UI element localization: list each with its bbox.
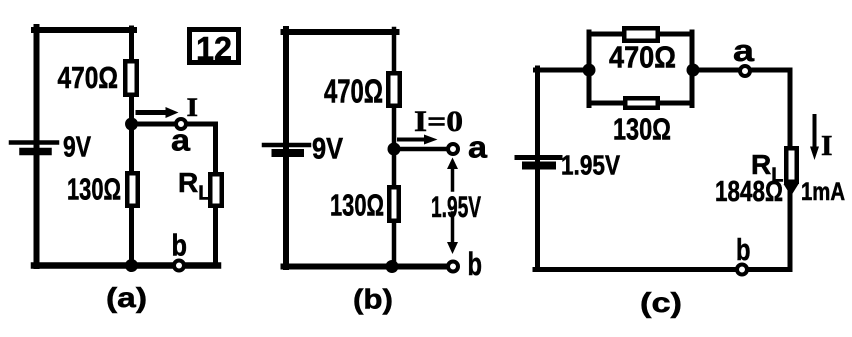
svg-text:b: b — [736, 232, 751, 267]
battery B2 9V (b) — [264, 145, 309, 153]
svg-text:a: a — [468, 130, 488, 165]
svg-text:I: I — [187, 93, 199, 122]
svg-text:1848Ω: 1848Ω — [715, 176, 783, 208]
junction: (a) bottom — [125, 259, 138, 272]
svg-text:1mA: 1mA — [801, 178, 845, 206]
svg-text:RL: RL — [178, 167, 210, 205]
resistor 470 ohm (b) — [388, 73, 400, 106]
resistor 130 ohm (b) — [389, 187, 399, 221]
wire: circuit (a) top horizontal — [34, 27, 134, 33]
svg-text:1.95V: 1.95V — [431, 191, 481, 224]
current arrow I (a) — [138, 107, 179, 118]
node a terminal (b) — [448, 144, 458, 154]
svg-text:a: a — [733, 33, 755, 68]
wire: circuit (c) feed horizontal — [536, 68, 590, 73]
junction: (a) divider tap — [125, 118, 138, 131]
wire: circuit (c) right vertical RL branch — [788, 70, 793, 270]
svg-text:(a): (a) — [106, 282, 147, 313]
svg-text:1.95V: 1.95V — [561, 150, 620, 181]
voltage arrow up toward node a (b) — [447, 158, 458, 191]
voltage arrow down toward node b (b) — [447, 213, 458, 254]
svg-text:b: b — [172, 228, 188, 263]
svg-text:a: a — [171, 123, 191, 158]
battery B1 9V (a) — [11, 143, 57, 152]
svg-text:(b): (b) — [353, 284, 393, 315]
svg-text:b: b — [468, 246, 483, 282]
svg-text:130Ω: 130Ω — [613, 112, 671, 147]
wire: circuit (a) middle branch vertical — [129, 28, 134, 266]
wire: circuit (a) tap to node a — [132, 122, 216, 127]
wire: circuit (c) bottom horizontal — [535, 267, 790, 272]
wire: circuit (a) left vertical — [34, 27, 40, 266]
resistor RL (a) — [210, 174, 222, 206]
junction: (c) parallel box left — [583, 64, 596, 77]
wire: circuit (c) link to node a — [692, 68, 790, 73]
node b terminal (a) — [174, 261, 184, 271]
wire: circuit (c) bottom branch horizontal — [589, 101, 692, 106]
svg-text:9V: 9V — [63, 132, 92, 164]
junction: (b) divider tap — [388, 143, 401, 156]
resistor RL 1848 ohm (c) — [786, 148, 797, 182]
wire: circuit (b) top horizontal — [284, 29, 397, 35]
wire: circuit (b) bottom horizontal — [284, 264, 454, 270]
wire: circuit (a) bottom horizontal — [34, 262, 218, 269]
node b terminal (b) — [448, 262, 458, 272]
current arrowhead 1mA on RL branch (c) — [784, 184, 799, 196]
node a terminal (a) — [176, 119, 186, 129]
svg-text:12: 12 — [196, 30, 232, 67]
svg-text:I: I — [821, 131, 833, 162]
resistor 130 ohm (a) — [127, 173, 138, 206]
svg-text:470Ω: 470Ω — [609, 40, 676, 75]
current arrow I=0 (b) — [399, 135, 438, 145]
wire: circuit (a) right vertical RL branch — [213, 124, 218, 266]
wire: circuit (c) top branch horizontal — [589, 32, 692, 37]
junction: (b) bottom — [386, 260, 399, 273]
wire: circuit (b) tap to node a — [394, 147, 448, 152]
svg-text:130Ω: 130Ω — [67, 172, 121, 207]
svg-text:9V: 9V — [312, 133, 343, 166]
wire: circuit (b) left vertical — [283, 29, 289, 267]
svg-text:(c): (c) — [640, 287, 682, 318]
junction: (c) parallel box right — [687, 64, 700, 77]
node b terminal (c) — [737, 265, 747, 275]
wire: circuit (c) parallel box left vertical — [587, 32, 592, 106]
resistor 470 ohm (a) — [125, 61, 137, 95]
resistor 470 ohm (c) horizontal — [624, 28, 658, 41]
svg-text:470Ω: 470Ω — [58, 60, 119, 95]
figure number box 12 — [190, 30, 239, 68]
svg-text:130Ω: 130Ω — [330, 188, 384, 223]
wire: circuit (c) parallel box right vertical — [690, 32, 695, 106]
node a terminal (c) — [740, 66, 750, 76]
battery B3 1.95V (c) — [517, 158, 560, 166]
svg-text:I=0: I=0 — [414, 105, 463, 138]
resistor 130 ohm (c) horizontal — [625, 98, 658, 108]
current arrow I (c) — [810, 116, 819, 160]
wire: circuit (c) left vertical — [535, 68, 540, 270]
svg-text:470Ω: 470Ω — [324, 73, 383, 110]
wire: circuit (b) middle branch vertical — [392, 29, 397, 267]
